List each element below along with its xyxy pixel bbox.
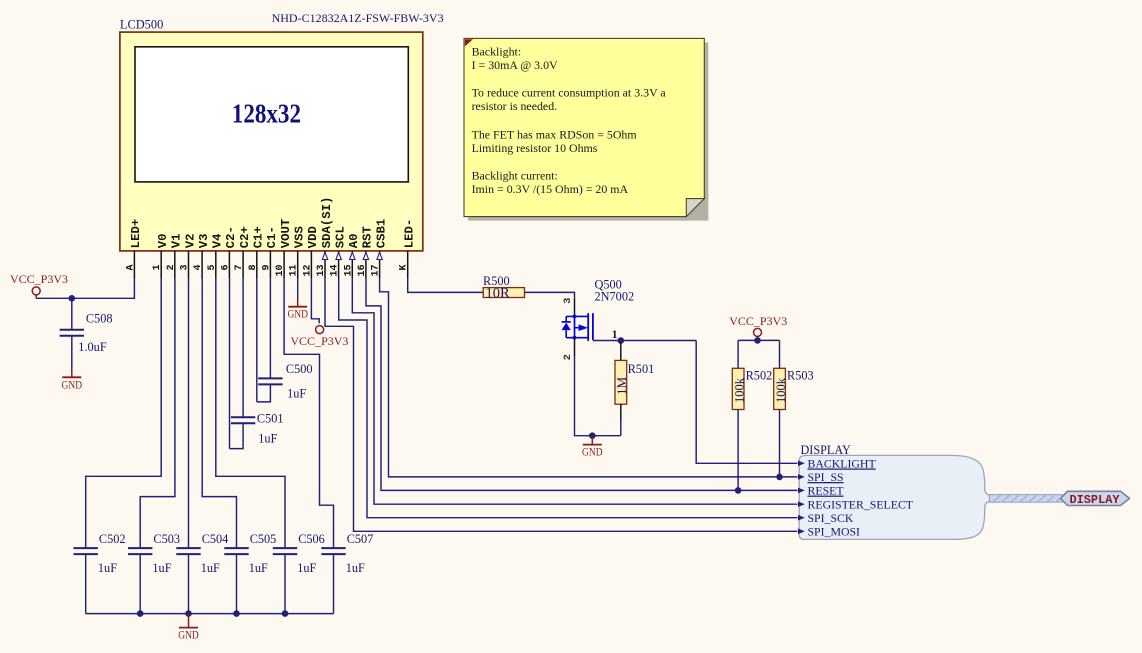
svg-text:LCD500: LCD500 <box>120 17 163 31</box>
wire pin7 C2+ to C501 <box>242 278 244 417</box>
pin 2 (V1) of LCD500 <box>174 251 176 278</box>
ground below C508 <box>62 376 81 378</box>
wire pin2 V1 to C503 <box>140 278 175 548</box>
wire pin9 C1- to C500 <box>269 278 271 378</box>
svg-text:2N7002: 2N7002 <box>595 289 635 303</box>
svg-text:RST: RST <box>361 226 375 249</box>
capacitor C502 <box>74 547 98 549</box>
svg-text:C503: C503 <box>153 532 180 546</box>
svg-text:2: 2 <box>562 354 574 360</box>
svg-text:A: A <box>125 264 136 270</box>
wire pin12 VDD to VCC <box>311 278 319 323</box>
svg-text:C2+: C2+ <box>238 226 252 248</box>
svg-text:DISPLAY: DISPLAY <box>1070 493 1121 507</box>
wire C508 to GND <box>71 336 73 370</box>
junction R502 RESET <box>735 487 742 494</box>
pin 15 (A0) of LCD500 <box>351 251 353 278</box>
svg-text:SDA(SI): SDA(SI) <box>320 197 334 249</box>
svg-text:VCC_P3V3: VCC_P3V3 <box>290 334 348 348</box>
pin 16 (RST) of LCD500 <box>365 251 367 278</box>
pin 10 (VOUT) of LCD500 <box>283 251 285 278</box>
svg-text:SCL: SCL <box>333 226 347 248</box>
svg-text:V2: V2 <box>183 234 197 249</box>
wire R500 to Q500 drain <box>525 292 575 299</box>
junction R503 SPI_SS <box>776 474 783 481</box>
harness entry SPI_SCK <box>798 515 805 521</box>
svg-text:GND: GND <box>582 445 603 459</box>
pin 1 (V0) of LCD500 <box>160 251 162 278</box>
svg-text:C2-: C2- <box>224 226 238 248</box>
svg-text:V3: V3 <box>197 234 211 249</box>
wire pin14 SCL to SPI_SCK <box>339 278 798 518</box>
wire pin11 VSS down <box>297 278 299 299</box>
LCD screen area 128x32 <box>135 47 408 182</box>
wire R502 to RESET <box>737 410 739 491</box>
junction C508/VCC <box>69 295 76 302</box>
harness entry SPI_MOSI <box>798 529 805 535</box>
svg-text:GND: GND <box>62 377 83 391</box>
pin 4 (V3) of LCD500 <box>201 251 203 278</box>
svg-text:15: 15 <box>343 264 354 276</box>
svg-text:1uF: 1uF <box>98 561 117 575</box>
junction C505 on rail <box>233 610 240 617</box>
svg-text:C501: C501 <box>257 411 284 425</box>
junction C503 on rail <box>137 610 144 617</box>
svg-text:R503: R503 <box>787 368 814 382</box>
svg-text:CSB1: CSB1 <box>374 219 388 249</box>
svg-text:VCC_P3V3: VCC_P3V3 <box>729 314 787 328</box>
pin 5 (V4) of LCD500 <box>215 251 217 278</box>
svg-text:Backlight:: Backlight: <box>472 44 522 58</box>
svg-text:R502: R502 <box>746 368 773 382</box>
svg-text:SPI_SS: SPI_SS <box>808 470 844 484</box>
capacitor C508 <box>60 329 84 331</box>
svg-text:10: 10 <box>275 264 286 276</box>
svg-text:DISPLAY: DISPLAY <box>801 443 852 457</box>
svg-text:1uF: 1uF <box>346 561 365 575</box>
svg-text:1uF: 1uF <box>249 561 268 575</box>
svg-text:C1-: C1- <box>265 226 279 248</box>
capacitor C506 <box>273 547 297 549</box>
svg-text:1: 1 <box>612 329 618 341</box>
svg-text:5: 5 <box>207 264 218 270</box>
wire LED- K to R500 <box>408 278 484 292</box>
pin 13 (SDA(SI)) of LCD500 <box>324 251 326 278</box>
pin 14 (SCL) of LCD500 <box>338 251 340 278</box>
resistor R503 <box>774 368 786 409</box>
pin 12 (VDD) of LCD500 <box>310 251 312 278</box>
svg-text:K: K <box>399 264 410 270</box>
svg-text:The FET has max RDSon = 5Ohm: The FET has max RDSon = 5Ohm <box>472 128 638 142</box>
svg-text:9: 9 <box>261 264 272 270</box>
ground at pin11 <box>288 306 307 308</box>
pin 3 (V2) of LCD500 <box>188 251 190 278</box>
wire C501 to pin6 C2- <box>230 424 244 449</box>
capacitor C504 <box>176 547 200 549</box>
power VCC_P3V3 (pin12) <box>316 326 324 334</box>
svg-text:10R: 10R <box>486 286 511 302</box>
LCD module U-body LCD500 <box>120 32 423 251</box>
pin 9 (C1-) of LCD500 <box>269 251 271 278</box>
svg-text:14: 14 <box>330 264 341 276</box>
svg-text:1uF: 1uF <box>287 387 306 401</box>
ground at Q500 <box>583 444 602 446</box>
svg-text:R501: R501 <box>628 362 655 376</box>
wire pin10 VOUT to C507 <box>284 278 333 548</box>
svg-text:128x32: 128x32 <box>232 98 301 128</box>
transistor Q500 2N7002 symbol <box>574 316 576 337</box>
wire pin17 CSB1 to SPI_SS <box>380 278 798 477</box>
svg-text:resistor is needed.: resistor is needed. <box>472 99 558 113</box>
svg-text:GND: GND <box>287 307 308 321</box>
wire Q500 gate to backlight net <box>593 340 696 342</box>
wire LED+ A to VCC <box>36 278 134 298</box>
svg-text:C508: C508 <box>86 312 113 326</box>
harness entry BACKLIGHT <box>798 461 805 467</box>
pin 7 (C2+) of LCD500 <box>242 251 244 278</box>
capacitor C501 <box>231 416 255 418</box>
svg-text:C1+: C1+ <box>252 226 266 248</box>
svg-text:V4: V4 <box>211 233 225 248</box>
ground rail bottom <box>86 613 334 615</box>
wire pin4 V3 to C505 <box>202 278 236 548</box>
junction gate/R501 <box>618 337 625 344</box>
svg-text:A0: A0 <box>347 234 361 249</box>
svg-text:17: 17 <box>371 264 382 276</box>
svg-text:VCC_P3V3: VCC_P3V3 <box>10 272 68 286</box>
svg-text:2: 2 <box>166 264 177 270</box>
svg-text:C500: C500 <box>286 362 313 376</box>
svg-text:3: 3 <box>562 298 574 304</box>
svg-text:12: 12 <box>302 264 313 276</box>
pin 17 (CSB1) of LCD500 <box>379 251 381 278</box>
pin 11 (VSS) of LCD500 <box>297 251 299 278</box>
wire R503 to SPI_SS <box>779 410 781 477</box>
capacitor C500 <box>258 377 282 379</box>
wire pin1 V0 to C502 <box>86 278 162 548</box>
harness entry REGISTER_SELECT <box>798 501 805 507</box>
note sticky body <box>464 38 704 216</box>
pin A (LED+) of LCD500 <box>133 251 135 278</box>
junction VCC right <box>754 337 761 344</box>
wire rail to GND <box>188 614 190 628</box>
pin 8 (C1+) of LCD500 <box>256 251 258 278</box>
capacitor C507 <box>321 547 345 549</box>
svg-text:3: 3 <box>180 264 191 270</box>
svg-text:To reduce current consumption: To reduce current consumption at 3.3V a <box>472 86 667 100</box>
svg-text:VOUT: VOUT <box>279 218 293 248</box>
svg-text:1uF: 1uF <box>258 432 277 446</box>
svg-text:VSS: VSS <box>293 226 307 248</box>
junction C506 on rail <box>282 610 289 617</box>
svg-text:6: 6 <box>220 264 231 270</box>
svg-text:C507: C507 <box>347 532 374 546</box>
svg-text:11: 11 <box>289 264 300 276</box>
svg-text:C505: C505 <box>250 532 277 546</box>
wire backlight vertical <box>696 341 797 464</box>
svg-text:SPI_SCK: SPI_SCK <box>808 511 854 525</box>
harness entry SPI_SS <box>798 474 805 480</box>
svg-text:GND: GND <box>178 628 199 642</box>
svg-text:1uF: 1uF <box>152 561 171 575</box>
capacitor C503 <box>128 547 152 549</box>
svg-text:100k: 100k <box>733 377 747 403</box>
wire pin3 V2 to C504 <box>188 278 190 548</box>
wire C500 to pin8 C1+ <box>257 385 271 402</box>
svg-text:LED-: LED- <box>403 219 417 249</box>
harness connector tag DISPLAY <box>1061 491 1130 505</box>
ground bottom rail <box>179 627 198 629</box>
svg-text:1M: 1M <box>614 377 629 396</box>
svg-text:LED+: LED+ <box>129 219 143 249</box>
svg-text:4: 4 <box>193 264 204 270</box>
svg-text:100k: 100k <box>774 377 788 403</box>
svg-text:SPI_MOSI: SPI_MOSI <box>808 525 861 539</box>
wire VCC to R502 R503 <box>738 339 779 341</box>
svg-text:13: 13 <box>316 264 327 276</box>
pin K (LED-) of LCD500 <box>407 251 409 278</box>
harness entry RESET <box>798 488 805 494</box>
svg-text:VDD: VDD <box>306 226 320 248</box>
resistor R501 <box>620 342 622 361</box>
wire pin16 RST to RESET <box>366 278 798 490</box>
svg-text:I = 30mA @ 3.0V: I = 30mA @ 3.0V <box>472 58 558 72</box>
svg-text:C504: C504 <box>202 532 229 546</box>
svg-text:1uF: 1uF <box>201 561 220 575</box>
junction C504 on rail <box>185 610 192 617</box>
harness DISPLAY body <box>799 455 989 539</box>
svg-text:Imin = 0.3V /(15 Ohm) = 20 mA: Imin = 0.3V /(15 Ohm) = 20 mA <box>472 182 629 196</box>
svg-text:V1: V1 <box>170 234 184 249</box>
resistor R500 <box>483 288 524 298</box>
harness cable <box>990 495 1063 503</box>
wire pin15 A0 to REGISTER_SELECT <box>352 278 797 504</box>
svg-text:Limiting resistor 10 Ohms: Limiting resistor 10 Ohms <box>472 141 598 155</box>
svg-text:16: 16 <box>357 264 368 276</box>
svg-text:V0: V0 <box>156 234 170 249</box>
wire pin13 SDA to SPI_MOSI <box>325 278 798 531</box>
svg-text:1: 1 <box>152 264 163 270</box>
resistor R502 <box>732 368 744 409</box>
capacitor C505 <box>224 547 248 549</box>
wire Q500 source to GND rail <box>574 338 576 356</box>
junction source GND <box>589 432 596 439</box>
svg-text:BACKLIGHT: BACKLIGHT <box>808 457 877 471</box>
svg-text:NHD-C12832A1Z-FSW-FBW-3V3: NHD-C12832A1Z-FSW-FBW-3V3 <box>272 11 444 25</box>
svg-text:REGISTER_SELECT: REGISTER_SELECT <box>808 497 914 511</box>
svg-text:Backlight current:: Backlight current: <box>472 168 558 182</box>
svg-text:C502: C502 <box>99 532 126 546</box>
svg-text:1uF: 1uF <box>297 561 316 575</box>
wire pin5 V4 to C506 <box>216 278 285 548</box>
svg-text:RESET: RESET <box>808 484 845 498</box>
note corner marker <box>465 39 473 46</box>
svg-text:7: 7 <box>234 264 245 270</box>
wire VCC to C508 <box>71 298 73 329</box>
svg-text:8: 8 <box>248 264 259 270</box>
svg-text:C506: C506 <box>298 532 325 546</box>
svg-text:1.0uF: 1.0uF <box>78 340 107 354</box>
note sticky shadow <box>468 42 708 220</box>
pin 6 (C2-) of LCD500 <box>228 251 230 278</box>
wire to GND q500 <box>591 436 593 445</box>
